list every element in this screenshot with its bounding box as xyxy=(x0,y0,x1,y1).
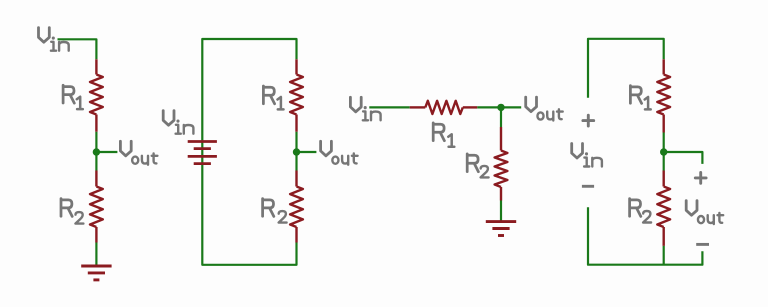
resistor R1 (circuit 4) xyxy=(657,59,670,132)
label U_out (circuit 1) xyxy=(120,141,157,164)
wire R1 to node (circuit 1) xyxy=(95,132,97,152)
wire R2 to ground (circuit 3) xyxy=(500,201,502,222)
wire minus terminal to bottom (circuit 4) xyxy=(588,207,702,265)
label R1 (circuit 4) xyxy=(630,86,650,110)
wire R1 to node (circuit 2) xyxy=(295,132,297,152)
label R1 (circuit 1) xyxy=(63,85,83,109)
wire battery plus to R1 top loop (circuit 2) xyxy=(202,39,296,140)
wire R1 to node (circuit 3) xyxy=(477,106,501,108)
wire plus terminal to R1 top (circuit 4) xyxy=(588,39,664,98)
plus sign output (circuit 4) xyxy=(695,173,706,184)
resistor R2 (circuit 3) xyxy=(495,127,508,201)
minus sign output (circuit 4) xyxy=(696,243,709,246)
label U_in (circuit 3) xyxy=(350,97,380,120)
wire R2 to bottom (circuit 4) xyxy=(663,246,665,265)
node Uout (circuit 3) xyxy=(497,104,504,111)
label R2 (circuit 2) xyxy=(263,199,287,223)
resistor R1 (circuit 1) xyxy=(90,59,103,132)
wire Vin to R1 (circuit 3) xyxy=(369,106,409,108)
wire node to Uout label (circuit 1) xyxy=(96,151,117,153)
resistor R1 (circuit 3) xyxy=(410,101,478,114)
label U_out (circuit 3) xyxy=(526,97,563,120)
wire R2 to ground (circuit 1) xyxy=(95,243,97,267)
ground (circuit 3) xyxy=(486,222,516,236)
label R2 (circuit 1) xyxy=(61,199,83,224)
wire through battery (circuit 2) xyxy=(201,140,203,165)
wire R1 to node (circuit 4) xyxy=(663,133,665,153)
wire node to R2 (circuit 1) xyxy=(95,152,97,171)
wire node to R2 (circuit 2) xyxy=(295,152,297,171)
label R2 (circuit 4) xyxy=(630,199,652,223)
wire node to R2 (circuit 3) xyxy=(500,107,502,127)
label R1 (circuit 3) xyxy=(433,123,454,147)
label U_in (circuit 4) xyxy=(572,144,602,167)
resistor R2 (circuit 4) xyxy=(657,171,670,246)
label U_out (circuit 4) xyxy=(686,201,723,224)
node Uout (circuit 2) xyxy=(293,148,300,155)
label U_in battery (circuit 2) xyxy=(163,111,193,134)
resistor R2 (circuit 1) xyxy=(90,171,103,243)
wire node to plus output terminal (circuit 4) xyxy=(664,152,703,164)
node Uout (circuit 1) xyxy=(93,148,100,155)
wire node to Uout label (circuit 2) xyxy=(297,151,317,153)
resistor R2 (circuit 2) xyxy=(290,171,303,243)
ground (circuit 1) xyxy=(81,266,111,280)
wire Vin to R1 (circuit 1) xyxy=(58,39,97,59)
wire node to Uout label (circuit 3) xyxy=(501,106,521,108)
wire node to R2 (circuit 4) xyxy=(663,152,665,171)
minus sign input (circuit 4) xyxy=(582,185,594,188)
label U_in (circuit 1) xyxy=(39,28,69,51)
battery U_in (circuit 2) xyxy=(188,142,217,164)
node Uout (circuit 4) xyxy=(660,148,667,155)
wire battery minus to bottom loop (circuit 2) xyxy=(202,165,296,265)
label U_out (circuit 2) xyxy=(321,141,358,164)
label R2 (circuit 3) xyxy=(467,154,488,178)
plus sign input (circuit 4) xyxy=(583,115,594,126)
resistor R1 (circuit 2) xyxy=(290,59,303,132)
label R1 (circuit 2) xyxy=(263,86,283,109)
